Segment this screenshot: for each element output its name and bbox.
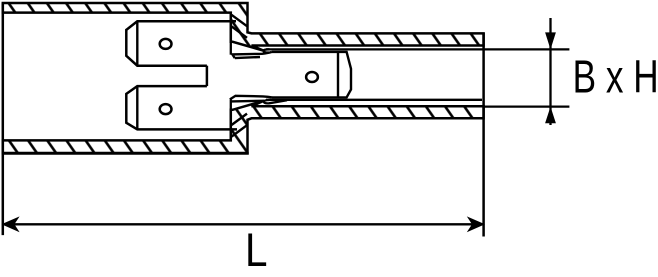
end-wall section hatch strokes, top: [232, 15, 248, 38]
blade hole: [306, 72, 318, 82]
sleeve end-wall left edge, top: [230, 13, 232, 55]
end-wall section hatch strokes, bottom: [232, 114, 248, 137]
upper prong fold line: [136, 21, 138, 65]
B x H bottom arrowhead: [545, 107, 556, 124]
liner bottom rolled lip: [264, 100, 287, 103]
tab blade (male tab) inside small tube: [272, 52, 351, 98]
insulation sleeve top wall (big tube + end wall + cone + small tube), hatched section: [3, 3, 484, 51]
fork terminal lower prong: [126, 86, 237, 129]
terminal neck upper lines: [232, 52, 272, 58]
sleeve left open end edge + L extension line (left): [2, 3, 5, 235]
metal liner top line (inside small tube, continues as B x H extension): [266, 48, 569, 50]
B x H bottom extension line: [484, 105, 570, 107]
metal liner bottom line: [266, 99, 482, 101]
svg-text:L: L: [245, 224, 268, 277]
lower prong fold line: [136, 86, 138, 129]
lower prong hole: [160, 104, 172, 114]
B x H dimension line (vertical): [549, 18, 551, 125]
insulation sleeve bottom wall, hatched section: [3, 101, 484, 154]
big tube outer bottom line (thicker): [3, 152, 249, 155]
L right arrowhead: [467, 216, 485, 232]
fork slot (gap between prongs), closed at right: [206, 66, 209, 86]
small tube right end edge + L extension line (right): [482, 33, 485, 237]
sleeve end-wall left edge, bottom: [230, 99, 232, 140]
liner top rolled lip: [264, 49, 270, 52]
blade fold line at tip: [337, 52, 339, 98]
fork terminal upper prong: [126, 21, 236, 65]
L dimension line: [3, 223, 484, 225]
L left arrowhead: [1, 216, 19, 232]
terminal neck lower lines: [230, 96, 272, 100]
B x H top arrowhead: [545, 32, 556, 49]
svg-text:B x H: B x H: [573, 51, 658, 103]
upper prong hole: [160, 39, 172, 49]
